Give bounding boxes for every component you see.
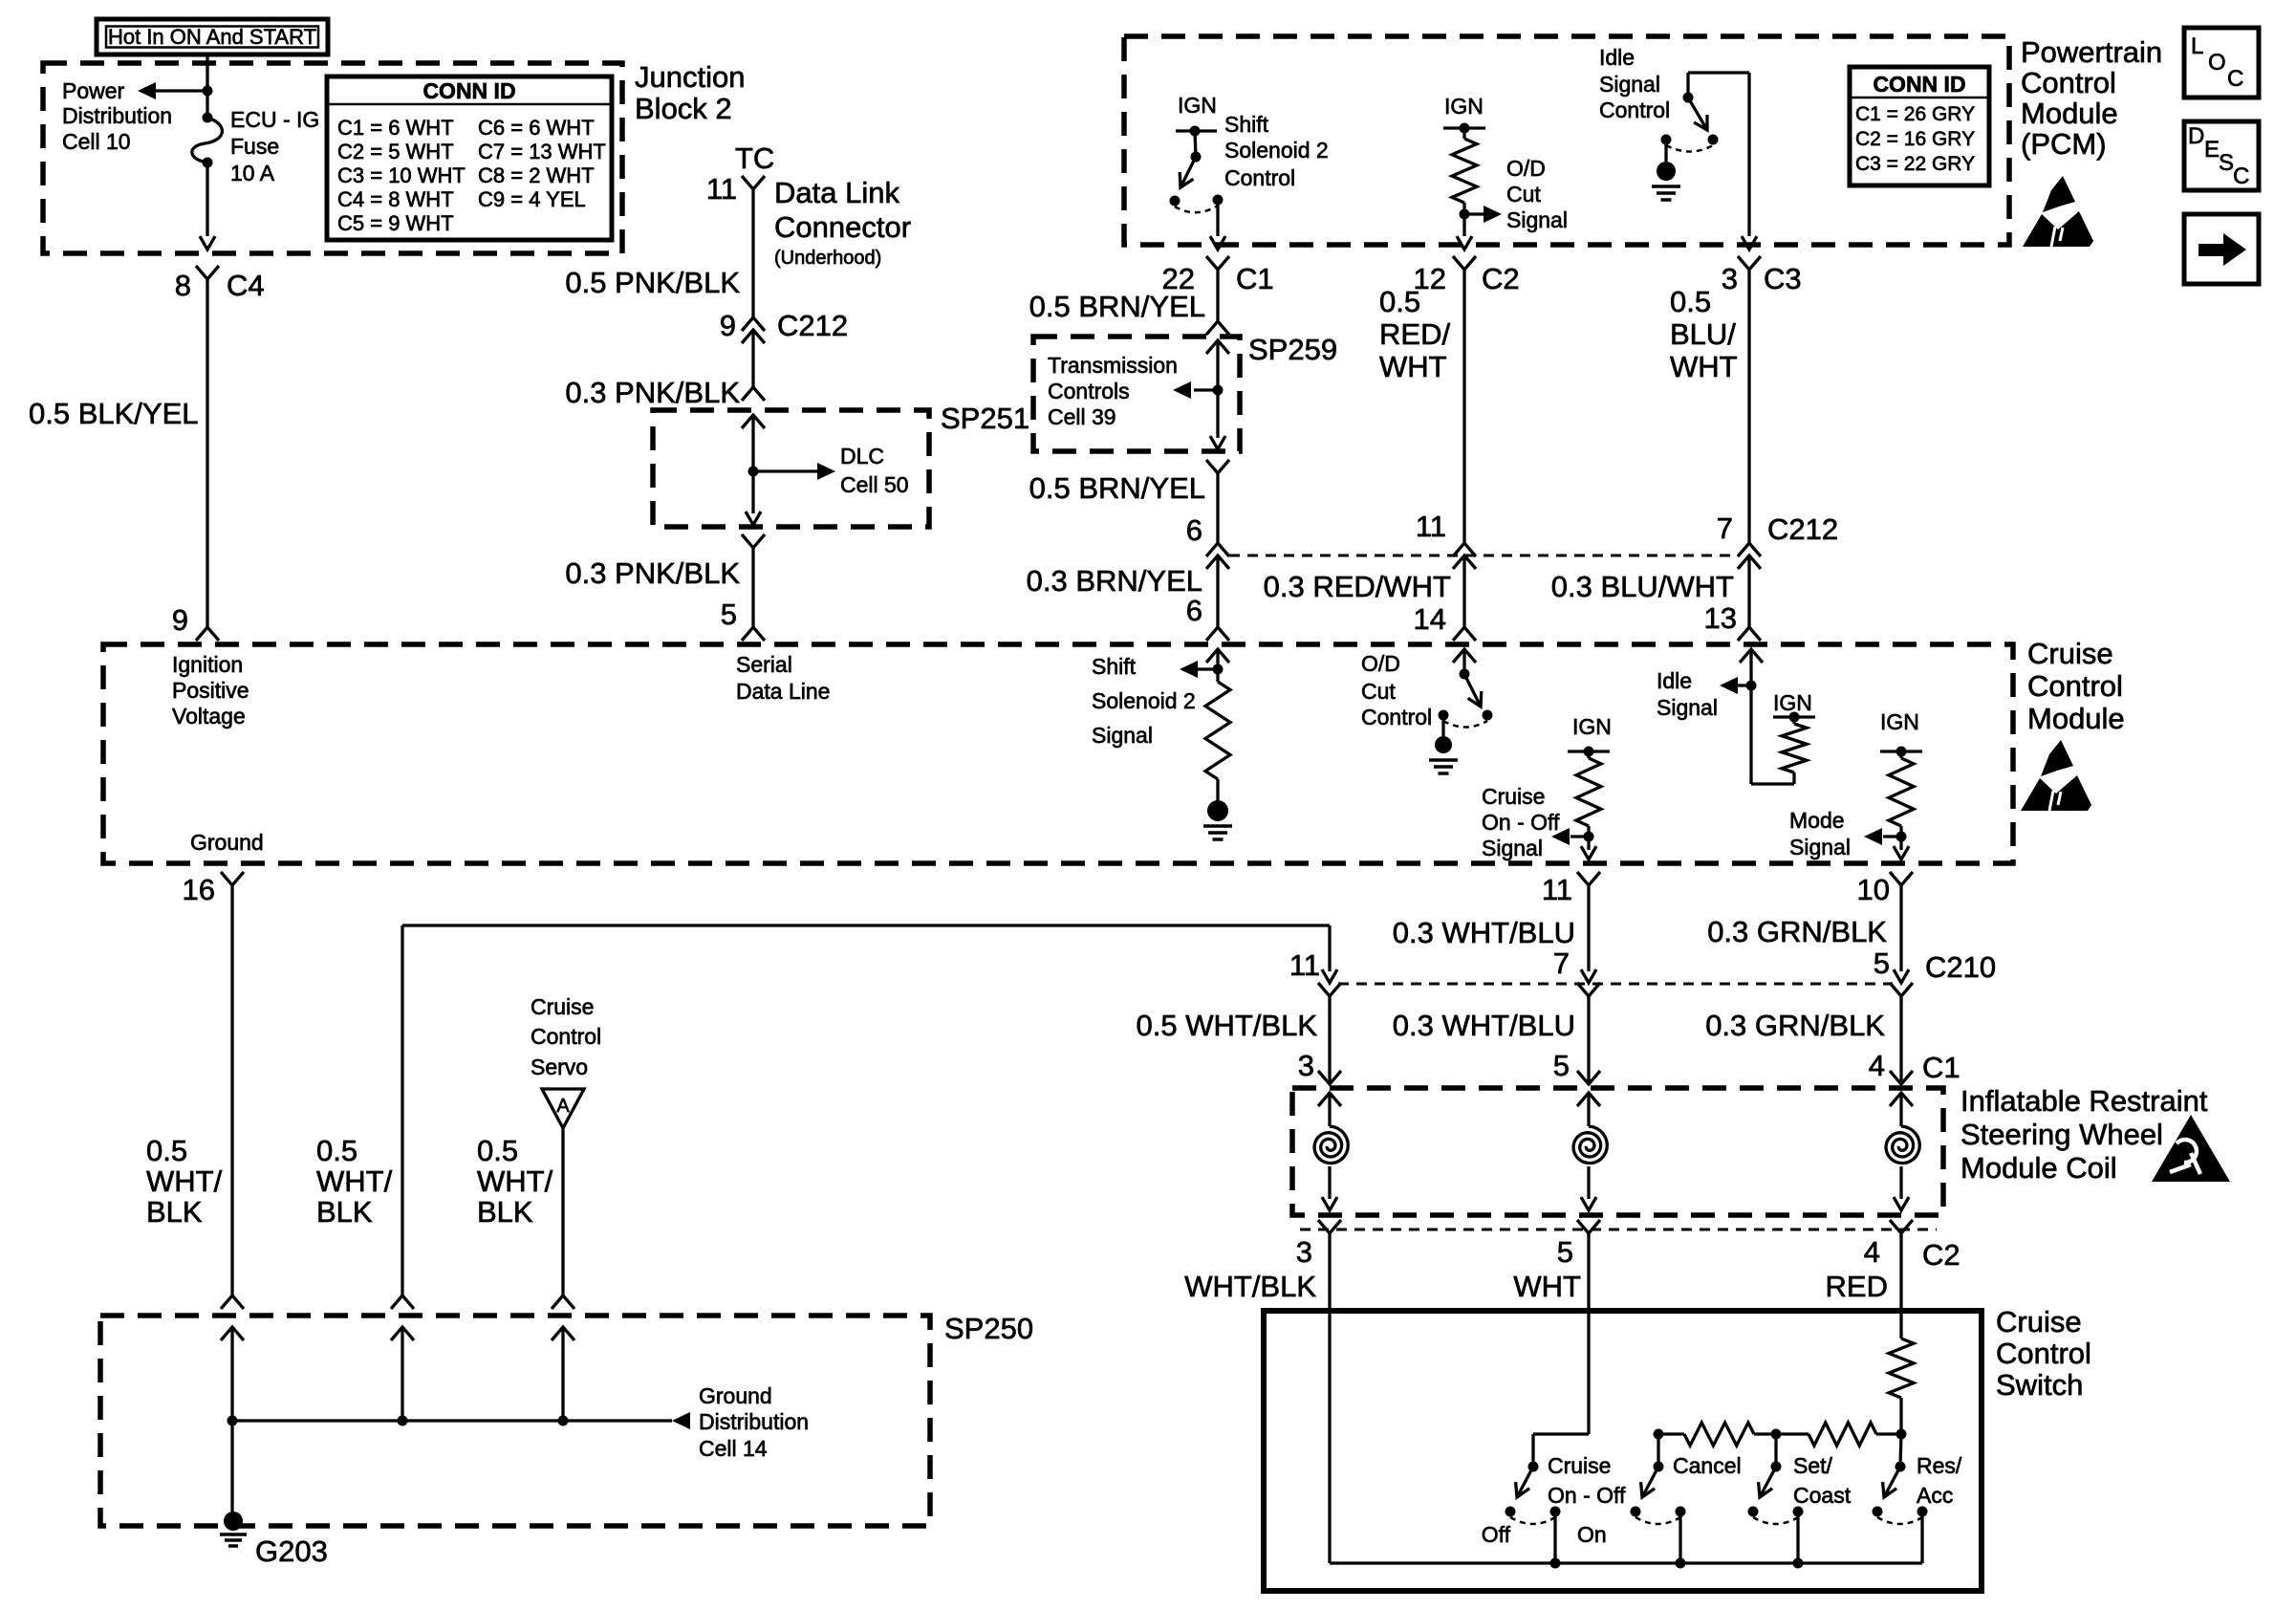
switch shift solenoid 2 control xyxy=(1170,131,1224,212)
svg-text:0.3 WHT/BLU: 0.3 WHT/BLU xyxy=(1393,916,1575,949)
switch common bus xyxy=(1330,1561,1922,1564)
node bus junction 2 xyxy=(398,1416,408,1426)
svg-text:O/D: O/D xyxy=(1506,156,1546,181)
svg-text:0.5 WHT/BLK: 0.5 WHT/BLK xyxy=(1137,1009,1318,1042)
label pin 14 xyxy=(1414,602,1446,636)
svg-text:O/D: O/D xyxy=(1361,651,1400,676)
svg-text:DLC: DLC xyxy=(840,444,884,468)
label Cruise Control Module xyxy=(2027,637,2125,735)
svg-text:C2 = 5 WHT: C2 = 5 WHT xyxy=(337,140,454,163)
connector coil pin 5 C2 xyxy=(1577,1220,1600,1233)
svg-text:Hot In ON And START: Hot In ON And START xyxy=(108,25,316,49)
thin dashed connector line C212 xyxy=(1229,555,1740,557)
connector C212 row idle wire xyxy=(1738,543,1761,569)
svg-text:0.5: 0.5 xyxy=(1670,285,1711,318)
ground idle signal control switch xyxy=(1652,162,1680,200)
connector coil pin 3 C2 xyxy=(1318,1220,1341,1233)
svg-text:E: E xyxy=(2204,137,2220,163)
label pin 3 C2 xyxy=(1296,1235,1312,1269)
connector pin 14 into cruise control module xyxy=(1453,627,1476,641)
svg-text:C212: C212 xyxy=(777,309,848,342)
connector C212 pin 9 xyxy=(742,317,765,343)
label Idle Signal xyxy=(1657,668,1718,720)
connector cruise module pin 16 xyxy=(221,872,244,885)
node mode signal xyxy=(1896,832,1907,842)
connector coil pin 4 C1 xyxy=(1890,1071,1913,1084)
IGN feed bar cruise on-off xyxy=(1568,747,1610,757)
svg-text:Power: Power xyxy=(62,78,125,103)
wire o/d cut to PCM pin 12 xyxy=(1457,214,1472,250)
arrow shift solenoid 2 signal xyxy=(1180,661,1218,678)
svg-text:0.5 PNK/BLK: 0.5 PNK/BLK xyxy=(565,266,740,299)
svg-text:Cruise: Cruise xyxy=(1996,1305,2082,1338)
svg-text:IGN: IGN xyxy=(1773,690,1812,715)
label pin 5 C2 xyxy=(1557,1235,1573,1269)
node power distribution tap xyxy=(203,86,213,97)
svg-text:SP251: SP251 xyxy=(941,402,1029,435)
wire 0.5 BRN/YEL pin22 to SP259 xyxy=(1216,270,1219,321)
svg-text:16: 16 xyxy=(183,873,215,906)
connector C210 pin 5 xyxy=(1890,983,1913,996)
wire WHT/BLK into switch common bus xyxy=(1328,1233,1331,1563)
svg-text:BLK: BLK xyxy=(146,1195,203,1229)
svg-text:C2: C2 xyxy=(1922,1238,1960,1272)
node idle signal xyxy=(1746,681,1757,691)
wire TC pin 11 to C212 pin 9 xyxy=(751,189,754,317)
label Shift Solenoid 2 Signal xyxy=(1092,654,1196,748)
connector C2 pin 12 xyxy=(1453,256,1476,270)
svg-text:0.5 BRN/YEL: 0.5 BRN/YEL xyxy=(1029,290,1205,323)
left CONN ID table box xyxy=(327,76,612,240)
label pin 7 C212 xyxy=(1717,511,1838,546)
svg-text:0.5 BLK/YEL: 0.5 BLK/YEL xyxy=(29,397,199,430)
wire idle signal entry xyxy=(1740,649,1763,685)
wire inside SP259 with up arrow xyxy=(1206,340,1229,390)
wire 0.3 GRN/BLK C210 to coil pin 4 xyxy=(1899,996,1902,1084)
IGN feed bar idle xyxy=(1773,712,1815,723)
svg-text:RED/: RED/ xyxy=(1379,317,1450,351)
svg-text:WHT/: WHT/ xyxy=(477,1164,553,1198)
label 0.3 PNK/BLK lower xyxy=(565,556,740,590)
label pin 5 xyxy=(721,598,737,631)
label WHT/BLK xyxy=(1184,1270,1316,1303)
label Ground Distribution Cell 14 xyxy=(699,1383,809,1461)
label Mode Signal xyxy=(1789,808,1851,859)
cruise control servo terminal A xyxy=(542,1089,584,1128)
svg-text:Cruise: Cruise xyxy=(1482,784,1545,809)
label O/D Cut Signal xyxy=(1506,156,1568,232)
label pin 5 C1 xyxy=(1553,1049,1570,1082)
switch set/coast xyxy=(1748,1434,1804,1569)
label pin 16 xyxy=(183,873,215,906)
label 0.5 RED/WHT xyxy=(1379,285,1450,383)
resistor o/d cut signal xyxy=(1452,128,1477,214)
svg-text:Powertrain: Powertrain xyxy=(2021,35,2162,69)
wire fuse to junction block pin 8 xyxy=(200,163,215,250)
svg-text:Distribution: Distribution xyxy=(62,103,172,128)
svg-text:C4: C4 xyxy=(227,269,265,302)
IGN feed bar o/d cut xyxy=(1443,123,1485,134)
svg-text:Data Line: Data Line xyxy=(736,679,830,704)
label Idle Signal Control xyxy=(1599,45,1670,122)
svg-text:Module Coil: Module Coil xyxy=(1960,1151,2117,1185)
wire 0.3 PNK/BLK from C212 to SP251 xyxy=(751,330,754,387)
svg-text:Shift: Shift xyxy=(1224,112,1269,137)
label 0.5 WHT/BLK first xyxy=(146,1134,223,1229)
svg-text:WHT/: WHT/ xyxy=(146,1164,223,1198)
wire o/d cut control entry xyxy=(1453,649,1476,674)
svg-text:0.5: 0.5 xyxy=(316,1134,357,1167)
svg-text:Positive: Positive xyxy=(172,678,249,703)
right CONN ID table rows xyxy=(1855,103,1975,175)
svg-text:RED: RED xyxy=(1826,1270,1888,1303)
LOC nav box xyxy=(2184,28,2259,98)
wire 0.5 RED/WHT pin12 to C212 pin 11 xyxy=(1462,270,1465,543)
wire switch common down to C210 pin 11 xyxy=(1322,925,1337,983)
label 0.5 WHT/BLK second xyxy=(316,1134,393,1229)
wire idle signal control to PCM pin 3 xyxy=(1688,73,1757,250)
ESD symbol cruise control module xyxy=(2021,740,2091,811)
coil 1 xyxy=(1314,1093,1348,1210)
label 0.5 PNK/BLK xyxy=(565,266,740,299)
powertrain control module dashed box xyxy=(1124,36,2009,245)
wire shift solenoid control to PCM pin 22 xyxy=(1210,200,1225,250)
svg-text:A: A xyxy=(556,1096,570,1117)
label Power Distribution Cell 10 xyxy=(62,78,172,154)
wire cruise on-off to C210 pin 7 xyxy=(1581,885,1596,983)
node SP259 splice xyxy=(1213,385,1224,396)
wire mode to C210 pin 5 xyxy=(1894,885,1909,983)
svg-text:Cruise: Cruise xyxy=(1548,1453,1611,1478)
svg-text:WHT: WHT xyxy=(1379,350,1447,383)
connector below SP251 xyxy=(742,534,765,548)
svg-text:0.3 GRN/BLK: 0.3 GRN/BLK xyxy=(1705,1009,1885,1042)
svg-text:C1: C1 xyxy=(1922,1051,1960,1084)
svg-text:Control: Control xyxy=(1224,165,1295,190)
label Cruise On-Off Signal xyxy=(1482,784,1560,860)
svg-text:0.5: 0.5 xyxy=(1379,285,1420,318)
wire 0.5 BLK/YEL from C4 pin 8 to cruise module pin 9 xyxy=(206,279,208,627)
label IGN cruise on-off xyxy=(1572,714,1612,739)
svg-text:Data Link: Data Link xyxy=(774,176,899,209)
label Cruise On-Off switch xyxy=(1548,1453,1626,1508)
ESD symbol PCM xyxy=(2023,176,2093,247)
label RED xyxy=(1826,1270,1888,1303)
svg-text:WHT: WHT xyxy=(1670,350,1738,383)
label pin 22 C1 xyxy=(1162,262,1274,295)
right CONN ID table box xyxy=(1850,67,1989,185)
label SP259 xyxy=(1248,333,1337,366)
ESD symbol coil xyxy=(2152,1115,2230,1182)
svg-text:Servo: Servo xyxy=(531,1055,588,1079)
svg-text:6: 6 xyxy=(1186,513,1202,547)
svg-text:On - Off: On - Off xyxy=(1482,810,1560,835)
node bus junction 3 xyxy=(558,1416,569,1426)
svg-text:10 A: 10 A xyxy=(230,161,275,185)
arrow cruise on-off signal xyxy=(1551,828,1589,845)
wire 0.3 RED/WHT C212 to cruise module pin 14 xyxy=(1462,555,1465,627)
label 0.5 BRN/YEL lower xyxy=(1029,471,1205,505)
svg-text:C: C xyxy=(2227,66,2243,92)
arrow mode signal xyxy=(1864,828,1901,845)
off-page arrow to Ground Distribution Cell 14 xyxy=(672,1412,690,1429)
svg-text:C: C xyxy=(2233,163,2249,189)
label 0.3 BRN/YEL xyxy=(1027,564,1202,598)
cruise control switch box xyxy=(1264,1311,1982,1591)
resistor shift solenoid 2 signal xyxy=(1205,682,1230,801)
svg-text:O: O xyxy=(2208,50,2226,76)
svg-text:Signal: Signal xyxy=(1657,695,1718,720)
node ladder set xyxy=(1771,1429,1782,1440)
svg-text:SP259: SP259 xyxy=(1248,333,1337,366)
resistor res/acc feed xyxy=(1889,1338,1914,1434)
label 0.3 WHT/BLU lower xyxy=(1393,1009,1575,1042)
wire 0.5 BLU/WHT pin3 to C212 pin 7 xyxy=(1747,270,1750,543)
label IGN mode xyxy=(1880,709,1919,734)
wire servo to SP250 xyxy=(561,1128,564,1295)
label pin 12 C2 xyxy=(1414,262,1520,295)
coil 3 xyxy=(1886,1093,1919,1210)
DESC nav box xyxy=(2184,121,2259,190)
connector C1 pin 22 xyxy=(1206,256,1229,270)
off-page arrow to Power Distribution Cell 10 xyxy=(138,82,207,99)
svg-text:On - Off: On - Off xyxy=(1548,1483,1626,1508)
label pin 4 C2 and C2 xyxy=(1864,1235,1960,1272)
svg-text:Ground: Ground xyxy=(190,830,264,855)
svg-text:Signal: Signal xyxy=(1599,72,1660,97)
connector cruise module pin 10 xyxy=(1890,872,1913,885)
svg-text:9: 9 xyxy=(172,603,188,637)
svg-text:Serial: Serial xyxy=(736,652,792,677)
svg-text:Res/: Res/ xyxy=(1917,1453,1962,1478)
arrow idle signal xyxy=(1720,677,1751,694)
wire 0.5 BRN/YEL SP259 to C212 pin 6 xyxy=(1216,473,1219,543)
resistor mode signal xyxy=(1889,751,1914,837)
svg-text:0.3 PNK/BLK: 0.3 PNK/BLK xyxy=(565,556,740,590)
label 0.5 WHT/BLK xyxy=(1137,1009,1318,1042)
wire SP250 entry arrows xyxy=(221,1327,574,1421)
node ladder res xyxy=(1896,1429,1907,1440)
label Data Link Connector (Underhood) xyxy=(774,176,911,269)
label TC xyxy=(735,141,774,175)
label WHT xyxy=(1513,1270,1581,1303)
svg-text:7: 7 xyxy=(1553,946,1570,980)
label 0.5 BRN/YEL upper xyxy=(1029,290,1205,323)
svg-text:Steering Wheel: Steering Wheel xyxy=(1960,1118,2163,1151)
svg-text:Cell 14: Cell 14 xyxy=(699,1436,768,1461)
label O/D Cut Control xyxy=(1361,651,1432,729)
svg-text:Cut: Cut xyxy=(1361,679,1396,704)
svg-text:D: D xyxy=(2188,123,2204,149)
node ladder cancel xyxy=(1654,1429,1664,1440)
svg-text:6: 6 xyxy=(1186,594,1202,627)
svg-text:BLK: BLK xyxy=(316,1195,373,1229)
label ECU-IG Fuse 10 A xyxy=(230,107,319,185)
label 0.3 PNK/BLK upper xyxy=(565,376,740,409)
svg-text:Connector: Connector xyxy=(774,210,911,244)
label pin 11 bottom xyxy=(1542,873,1572,906)
svg-text:C2: C2 xyxy=(1482,262,1520,295)
ground G203 xyxy=(220,1512,247,1546)
svg-text:0.3 WHT/BLU: 0.3 WHT/BLU xyxy=(1393,1009,1575,1042)
svg-text:C2 = 16 GRY: C2 = 16 GRY xyxy=(1855,128,1975,150)
svg-text:5: 5 xyxy=(1553,1049,1570,1082)
wire mode signal to pin 10 xyxy=(1894,837,1909,859)
svg-text:Solenoid 2: Solenoid 2 xyxy=(1092,688,1196,713)
svg-text:Distribution: Distribution xyxy=(699,1409,809,1434)
svg-text:TC: TC xyxy=(735,141,774,175)
svg-text:Shift: Shift xyxy=(1092,654,1137,679)
svg-text:0.3 GRN/BLK: 0.3 GRN/BLK xyxy=(1707,915,1887,948)
svg-text:WHT/: WHT/ xyxy=(316,1164,393,1198)
connector into SP259 xyxy=(1206,321,1229,335)
junction block 2 name label xyxy=(635,60,745,125)
connector pin 5 into cruise control module xyxy=(742,627,765,641)
arrow o/d cut signal xyxy=(1464,206,1502,223)
svg-text:Control: Control xyxy=(531,1024,601,1049)
label 0.5 BLU/WHT xyxy=(1670,285,1738,383)
svg-text:Signal: Signal xyxy=(1506,207,1568,232)
wire SP250 to G203 xyxy=(230,1421,233,1515)
connector coil pin 3 C1 xyxy=(1318,1071,1341,1084)
node bus junction 1 xyxy=(227,1416,238,1426)
label Set/Coast xyxy=(1793,1453,1852,1508)
svg-text:WHT/BLK: WHT/BLK xyxy=(1184,1270,1316,1303)
label Off xyxy=(1482,1522,1511,1547)
wire 0.5 WHT/BLK C210 to coil pin 3 xyxy=(1328,996,1331,1084)
svg-text:CONN ID: CONN ID xyxy=(422,78,515,103)
junction block 2 dashed box xyxy=(43,63,622,253)
fuse ECU-IG 10A xyxy=(192,113,223,168)
svg-text:Ground: Ground xyxy=(699,1383,772,1408)
label pin 9 xyxy=(172,603,188,637)
svg-text:11: 11 xyxy=(1542,873,1572,906)
label SP250 xyxy=(944,1312,1033,1345)
svg-text:5: 5 xyxy=(1557,1235,1573,1269)
wire 0.3 BRN/YEL C212 to cruise module pin 6 xyxy=(1216,555,1219,627)
svg-text:3: 3 xyxy=(1722,262,1738,295)
left CONN ID table title xyxy=(422,78,515,103)
label pin 3 C3 xyxy=(1722,262,1802,295)
IGN feed bar mode xyxy=(1880,747,1922,757)
wire 0.3 BLU/WHT C212 to cruise module pin 13 xyxy=(1747,555,1750,627)
svg-text:Cell 39: Cell 39 xyxy=(1048,404,1116,429)
svg-text:0.5: 0.5 xyxy=(477,1134,518,1167)
svg-text:BLU/: BLU/ xyxy=(1670,317,1736,351)
connector cruise module pin 11 xyxy=(1577,872,1600,885)
svg-text:9: 9 xyxy=(720,309,736,342)
svg-text:S: S xyxy=(2219,150,2234,176)
svg-text:C1 = 26 GRY: C1 = 26 GRY xyxy=(1855,103,1975,125)
svg-text:Cruise: Cruise xyxy=(531,994,594,1019)
svg-text:(PCM): (PCM) xyxy=(2021,127,2107,161)
connector C212 row o/d wire xyxy=(1453,543,1476,569)
svg-text:SP250: SP250 xyxy=(944,1312,1033,1345)
wire shift solenoid 2 signal entry xyxy=(1206,649,1229,682)
svg-text:4: 4 xyxy=(1864,1235,1880,1269)
svg-text:Off: Off xyxy=(1482,1522,1511,1547)
svg-text:C3 = 22 GRY: C3 = 22 GRY xyxy=(1855,153,1975,175)
svg-text:5: 5 xyxy=(721,598,737,631)
svg-text:C7 = 13 WHT: C7 = 13 WHT xyxy=(478,140,606,163)
label IGN idle xyxy=(1773,690,1812,715)
wire cruise on-off to pin 11 xyxy=(1581,837,1596,859)
svg-text:8: 8 xyxy=(175,269,191,302)
svg-text:11: 11 xyxy=(1416,510,1446,543)
arrow to transmission controls xyxy=(1173,381,1218,399)
ground shift solenoid 2 signal xyxy=(1203,800,1232,839)
resistor idle pullup xyxy=(1751,685,1807,784)
svg-text:3: 3 xyxy=(1298,1049,1314,1082)
connector pin 13 into cruise control module xyxy=(1738,627,1761,641)
connector C210 pin 7 xyxy=(1577,983,1600,996)
connector pin 6 into cruise control module xyxy=(1206,627,1229,641)
label Cruise Control Switch xyxy=(1996,1305,2091,1402)
svg-text:L: L xyxy=(2191,33,2203,59)
svg-text:ECU - IG: ECU - IG xyxy=(230,107,319,132)
label On xyxy=(1577,1522,1607,1547)
svg-text:0.3 BLU/WHT: 0.3 BLU/WHT xyxy=(1551,570,1734,603)
connector pin 9 into cruise control module xyxy=(196,627,219,641)
svg-text:Control: Control xyxy=(2027,669,2123,703)
label 0.5 BLK/YEL xyxy=(29,397,199,430)
svg-text:Cancel: Cancel xyxy=(1673,1453,1742,1478)
label pin 9 C212 xyxy=(720,309,848,342)
label 0.5 WHT/BLK third xyxy=(477,1134,553,1229)
coil 2 xyxy=(1573,1093,1607,1210)
svg-text:Module: Module xyxy=(2027,702,2125,735)
label IGN o/d cut xyxy=(1444,94,1484,119)
label Cruise Control Servo xyxy=(531,994,601,1079)
svg-text:4: 4 xyxy=(1869,1049,1885,1082)
svg-text:G203: G203 xyxy=(255,1534,328,1568)
ground o/d cut control xyxy=(1429,736,1458,773)
label Inflatable Restraint Steering Wheel Module Coil xyxy=(1960,1084,2208,1185)
svg-text:Block 2: Block 2 xyxy=(635,92,732,125)
label Powertrain Control Module (PCM) xyxy=(2021,35,2162,161)
svg-text:C1: C1 xyxy=(1236,262,1274,295)
switch idle signal control xyxy=(1661,93,1719,163)
svg-text:WHT: WHT xyxy=(1513,1270,1581,1303)
svg-text:Control: Control xyxy=(2021,66,2116,99)
svg-text:IGN: IGN xyxy=(1572,714,1612,739)
svg-text:Controls: Controls xyxy=(1048,379,1130,403)
label 0.3 RED/WHT xyxy=(1264,570,1451,603)
label Shift Solenoid 2 Control xyxy=(1224,112,1329,190)
connector TC pin 11 xyxy=(742,176,765,189)
svg-text:CONN ID: CONN ID xyxy=(1873,72,1965,97)
power feed label box "Hot In ON And START" xyxy=(97,19,328,54)
svg-text:Signal: Signal xyxy=(1482,836,1543,860)
svg-text:Signal: Signal xyxy=(1092,723,1153,748)
svg-text:IGN: IGN xyxy=(1178,93,1217,118)
off-page arrow to DLC Cell 50 xyxy=(753,463,835,480)
connector coil pin 5 C1 xyxy=(1577,1071,1600,1084)
svg-text:Transmission: Transmission xyxy=(1048,353,1178,378)
svg-text:Cut: Cut xyxy=(1506,182,1541,207)
svg-text:3: 3 xyxy=(1296,1235,1312,1269)
splice SP259 dashed box xyxy=(1033,337,1240,451)
svg-text:C1 = 6 WHT: C1 = 6 WHT xyxy=(337,116,454,140)
connector into SP250 wire 1 xyxy=(221,1295,244,1309)
svg-text:Mode: Mode xyxy=(1789,808,1845,833)
wire SP251 down arrow xyxy=(746,471,761,525)
svg-text:(Underhood): (Underhood) xyxy=(774,248,881,269)
node SP251 splice xyxy=(748,467,759,477)
svg-text:C3 = 10 WHT: C3 = 10 WHT xyxy=(337,163,466,187)
label 0.3 GRN/BLK upper xyxy=(1707,915,1887,948)
svg-text:BLK: BLK xyxy=(477,1195,533,1229)
